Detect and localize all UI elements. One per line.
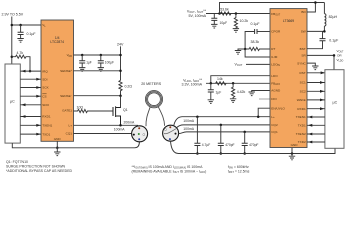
wire EN/UVLO	[258, 108, 270, 117]
svg-text:SR: SR	[301, 54, 306, 58]
wire FB_LDO row	[206, 82, 270, 84]
ground below 0.1uF	[17, 39, 23, 43]
svg-text:100µF: 100µF	[105, 61, 114, 65]
wire GND stub LT3669	[291, 148, 293, 154]
svg-text:BD: BD	[301, 10, 306, 14]
node 100uF tap	[100, 54, 103, 57]
resistor 10 ohm gate	[74, 109, 114, 112]
svg-text:RT: RT	[271, 47, 275, 51]
svg-text:OR: OR	[337, 53, 342, 57]
svg-text:GATE1: GATE1	[62, 109, 72, 113]
wire RXD1 right	[307, 108, 325, 110]
ground below 1uF	[79, 68, 85, 72]
resistor 38.3k RT	[245, 47, 270, 50]
node 0.1uF tap	[19, 24, 22, 27]
svg-text:2.9V TO 5.5V: 2.9V TO 5.5V	[2, 13, 24, 17]
svg-text:DIO: DIO	[271, 97, 277, 101]
svg-text:SYNC: SYNC	[297, 61, 306, 65]
svg-text:1µF: 1µF	[86, 61, 92, 65]
capacitor C bypass 0.1uF	[20, 25, 22, 32]
svg-text:EN/UVLO: EN/UVLO	[271, 106, 285, 110]
ground below 10uF	[211, 24, 217, 28]
ground below 1uF LDO	[208, 100, 214, 104]
ground node245	[238, 49, 245, 51]
svg-text:*ADDITIONAL BYPASS CAP AS NEED: *ADDITIONAL BYPASS CAP AS NEEDED	[6, 169, 73, 173]
ground SYNC	[307, 63, 315, 66]
svg-text:SURGE PROTECTION NOT SHOWN: SURGE PROTECTION NOT SHOWN	[6, 164, 66, 168]
capacitor 470pF 2	[243, 131, 246, 134]
svg-text:RXD1: RXD1	[42, 115, 51, 119]
resistor 14k	[216, 82, 226, 85]
wire VOUT top rail	[220, 3, 325, 14]
svg-text:RXD1: RXD1	[297, 107, 306, 111]
svg-text:L+: L+	[68, 124, 72, 128]
svg-text:20 METERS: 20 METERS	[141, 82, 162, 86]
capacitor 100uF	[100, 55, 102, 61]
svg-text:SC1: SC1	[300, 81, 306, 85]
node VOUT top	[218, 12, 221, 15]
wire IRQ	[20, 70, 41, 72]
wire rail to Q1 drain	[116, 96, 121, 108]
ground AGND	[252, 91, 270, 93]
svg-text:TXEN2: TXEN2	[296, 132, 306, 136]
svg-text:5V, 100mA: 5V, 100mA	[189, 14, 207, 18]
svg-text:Q1: Q1	[123, 108, 128, 112]
IC U1 LTC2874	[41, 20, 74, 141]
wire LDO row	[211, 76, 270, 84]
wire SDI	[20, 78, 41, 80]
wire B CQ2 line	[177, 125, 270, 128]
wire FB_OUT row	[206, 13, 270, 15]
svg-text:TXD2: TXD2	[298, 140, 306, 144]
transistor Q1 FQT7N10	[113, 106, 121, 125]
svg-text:CQ2: CQ2	[271, 123, 278, 127]
svg-text:100mA: 100mA	[183, 127, 194, 131]
node 53.6k right	[235, 12, 238, 15]
inductor 82uH	[323, 3, 325, 14]
svg-text:SDO: SDO	[42, 103, 49, 107]
ground LTC2874	[56, 148, 58, 152]
svg-text:TXEN1: TXEN1	[296, 115, 306, 119]
svg-text:IRQ: IRQ	[42, 69, 48, 73]
wire SW	[307, 30, 324, 32]
svg-text:10.2k: 10.2k	[240, 19, 249, 23]
node 4.7k to IRQ	[29, 70, 32, 73]
svg-text:RST: RST	[300, 71, 306, 75]
wire TXD1	[20, 133, 41, 135]
wire CQ1	[74, 133, 133, 135]
svg-text:LDO: LDO	[271, 74, 278, 78]
wire TXEN2	[307, 133, 325, 135]
svg-text:470pF: 470pF	[249, 143, 258, 147]
wire RST	[307, 72, 325, 74]
svg-text:TXEN1: TXEN1	[42, 124, 52, 128]
svg-text:L+: L+	[271, 115, 275, 119]
wire VDD	[74, 54, 121, 56]
wire 24V rail	[120, 46, 122, 80]
wire uC ground + bottom return	[12, 142, 139, 148]
ground below 4.42k	[230, 99, 236, 103]
svg-text:µC: µC	[10, 99, 15, 103]
svg-text:38.3k: 38.3k	[251, 40, 260, 44]
resistor 0.2 ohm	[119, 80, 122, 95]
svg-text:µC: µC	[333, 101, 338, 105]
wire GND stub LTC2874	[56, 141, 58, 148]
svg-text:CPOR: CPOR	[271, 30, 281, 34]
svg-text:53.6k: 53.6k	[220, 7, 229, 11]
wire SCK	[20, 87, 41, 89]
wire supply vertical to uC top	[11, 17, 13, 65]
wire TXD2	[307, 141, 325, 143]
svg-text:10µF: 10µF	[220, 21, 228, 25]
capacitor 10uF	[213, 14, 215, 19]
capacitor 1uF LDO	[210, 83, 212, 90]
resistor 4.42k	[232, 83, 235, 99]
connector J2 right M12	[163, 125, 179, 141]
svg-text:tRST = 12.5ms: tRST = 12.5ms	[228, 169, 250, 174]
resistor 53.6k	[221, 12, 231, 15]
svg-text:SW: SW	[301, 30, 306, 34]
wire TXEN1 right	[307, 116, 325, 118]
wire SC1	[307, 82, 325, 84]
svg-text:0.1µF: 0.1µF	[251, 22, 260, 26]
wire ILIM	[245, 49, 270, 57]
wire A L+ line	[174, 117, 270, 126]
wire CS	[20, 95, 41, 97]
svg-text:0.1µF: 0.1µF	[329, 39, 338, 43]
svg-text:(REMAINING AVAILABLE IOUT IS 1: (REMAINING AVAILABLE IOUT IS 100mA − ILD…	[132, 169, 207, 174]
svg-text:CQ1: CQ1	[66, 132, 73, 136]
svg-text:SC2: SC2	[300, 90, 306, 94]
svg-text:82µH: 82µH	[329, 15, 338, 19]
svg-text:CQ1: CQ1	[271, 130, 278, 134]
wire DIO stub	[259, 98, 270, 100]
wire SENSE+	[74, 70, 121, 72]
svg-text:Q1: FQT7N10: Q1: FQT7N10	[6, 160, 28, 164]
node 1uF tap	[81, 54, 84, 57]
svg-text:SCK: SCK	[42, 86, 49, 90]
svg-text:3.3V, 100mA: 3.3V, 100mA	[182, 82, 203, 86]
cable lead left	[146, 107, 150, 126]
wire RXD1	[20, 116, 41, 118]
svg-text:0.2Ω: 0.2Ω	[125, 85, 133, 89]
wire WAKE	[307, 99, 325, 101]
svg-text:TXD1: TXD1	[298, 124, 306, 128]
wire BD	[307, 3, 315, 13]
svg-text:4.7µF: 4.7µF	[202, 143, 211, 147]
svg-text:LT3669: LT3669	[283, 19, 294, 23]
svg-text:SDI: SDI	[42, 77, 47, 81]
wire SENSE-	[74, 95, 121, 97]
wire SR to uC	[307, 55, 334, 69]
wire C CQ1 line	[178, 132, 270, 134]
svg-text:14k: 14k	[217, 77, 223, 81]
svg-text:GND: GND	[54, 137, 62, 141]
svg-text:BST: BST	[300, 47, 306, 51]
node supply/VL junction	[11, 24, 14, 27]
svg-text:100mA: 100mA	[114, 128, 125, 132]
resistor R pullup 4.7k	[11, 55, 14, 58]
resistor 10.2k	[234, 14, 237, 29]
svg-text:VOUT: VOUT	[235, 63, 243, 68]
capacitor 0.1uF BST	[322, 31, 324, 38]
capacitor 1uF	[81, 55, 83, 61]
wire VL horizontal	[12, 24, 41, 26]
microcontroller uC right box	[325, 70, 344, 149]
capacitor 4.7uF	[196, 115, 199, 118]
svg-text:1µF: 1µF	[216, 91, 222, 95]
node RT/ILIM	[244, 48, 247, 51]
svg-text:100mA: 100mA	[183, 119, 194, 123]
svg-text:200mA: 200mA	[124, 120, 135, 124]
wire L+	[74, 124, 139, 126]
svg-text:4.42k: 4.42k	[237, 90, 246, 94]
svg-text:4.7k: 4.7k	[17, 51, 24, 55]
capacitor 0.1uF CPOR	[257, 31, 270, 33]
svg-text:10Ω: 10Ω	[77, 105, 84, 109]
svg-text:ILIM: ILIM	[271, 55, 277, 59]
svg-text:LTC2874: LTC2874	[50, 40, 64, 44]
cable lead right	[158, 107, 164, 126]
connector J1 left M12	[132, 126, 148, 142]
wire SDO	[20, 104, 41, 106]
capacitor 470pF 1	[220, 124, 223, 127]
svg-text:AGND: AGND	[271, 89, 281, 93]
IC U2 LT3669	[270, 9, 307, 148]
svg-text:WAKE: WAKE	[297, 98, 306, 102]
wire TXD1 right	[307, 124, 325, 126]
svg-text:24V: 24V	[117, 42, 124, 46]
svg-text:TXD1: TXD1	[42, 132, 50, 136]
ground below 10.2k	[233, 29, 239, 33]
svg-text:470pF: 470pF	[225, 143, 234, 147]
svg-text:0.1µF: 0.1µF	[27, 32, 36, 36]
node GND LT3669	[291, 152, 294, 155]
microcontroller uC left box	[5, 64, 20, 143]
wire TXEN1	[20, 124, 41, 126]
svg-text:CS: CS	[42, 94, 46, 98]
ground LT3669	[291, 154, 293, 157]
wire SC2	[307, 90, 325, 92]
ground below 100uF	[98, 68, 104, 72]
wire bottom return right	[171, 141, 336, 153]
